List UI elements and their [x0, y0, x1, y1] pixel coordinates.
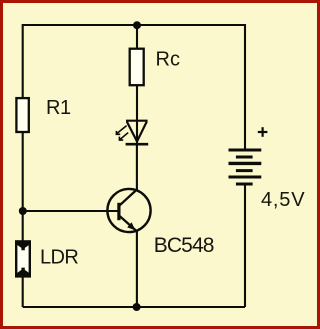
wire right rail upper (top rail to battery +) [244, 24, 246, 149]
battery plus sign [258, 127, 268, 137]
transistor Q1 BC548 [107, 189, 150, 232]
LED D1 [126, 121, 149, 145]
LED light arrows [116, 126, 128, 141]
junction dot bottom (node emitter rail) [133, 303, 141, 311]
junction dot top (node collector rail) [133, 21, 141, 29]
wire right rail lower (battery - to bottom rail) [244, 186, 246, 308]
svg-text:LDR: LDR [40, 247, 78, 269]
resistor R1 [16, 98, 28, 132]
wire base (left rail to transistor base) [23, 210, 118, 212]
resistor Rc [130, 49, 144, 85]
wire Rc to LED and through LED [136, 86, 138, 144]
wire left rail lower (LDR to bottom rail) [22, 277, 24, 307]
svg-text:R1: R1 [46, 97, 71, 119]
svg-text:BC548: BC548 [154, 234, 214, 257]
wire transistor emitter to bottom junction [136, 231, 138, 308]
wire middle branch upper (top junction to Rc) [136, 25, 138, 49]
wire left rail upper (top rail to R1) [22, 24, 24, 98]
svg-text:4,5V: 4,5V [261, 189, 305, 211]
wire bottom rail [23, 306, 245, 308]
svg-text:Rc: Rc [156, 48, 180, 70]
LDR R2 [16, 241, 30, 276]
battery B1 [229, 150, 262, 184]
wire top rail [23, 24, 245, 26]
wire LED to transistor collector [136, 144, 138, 191]
wire left rail middle (R1 to LDR) [22, 133, 24, 242]
junction dot base node [19, 207, 27, 215]
